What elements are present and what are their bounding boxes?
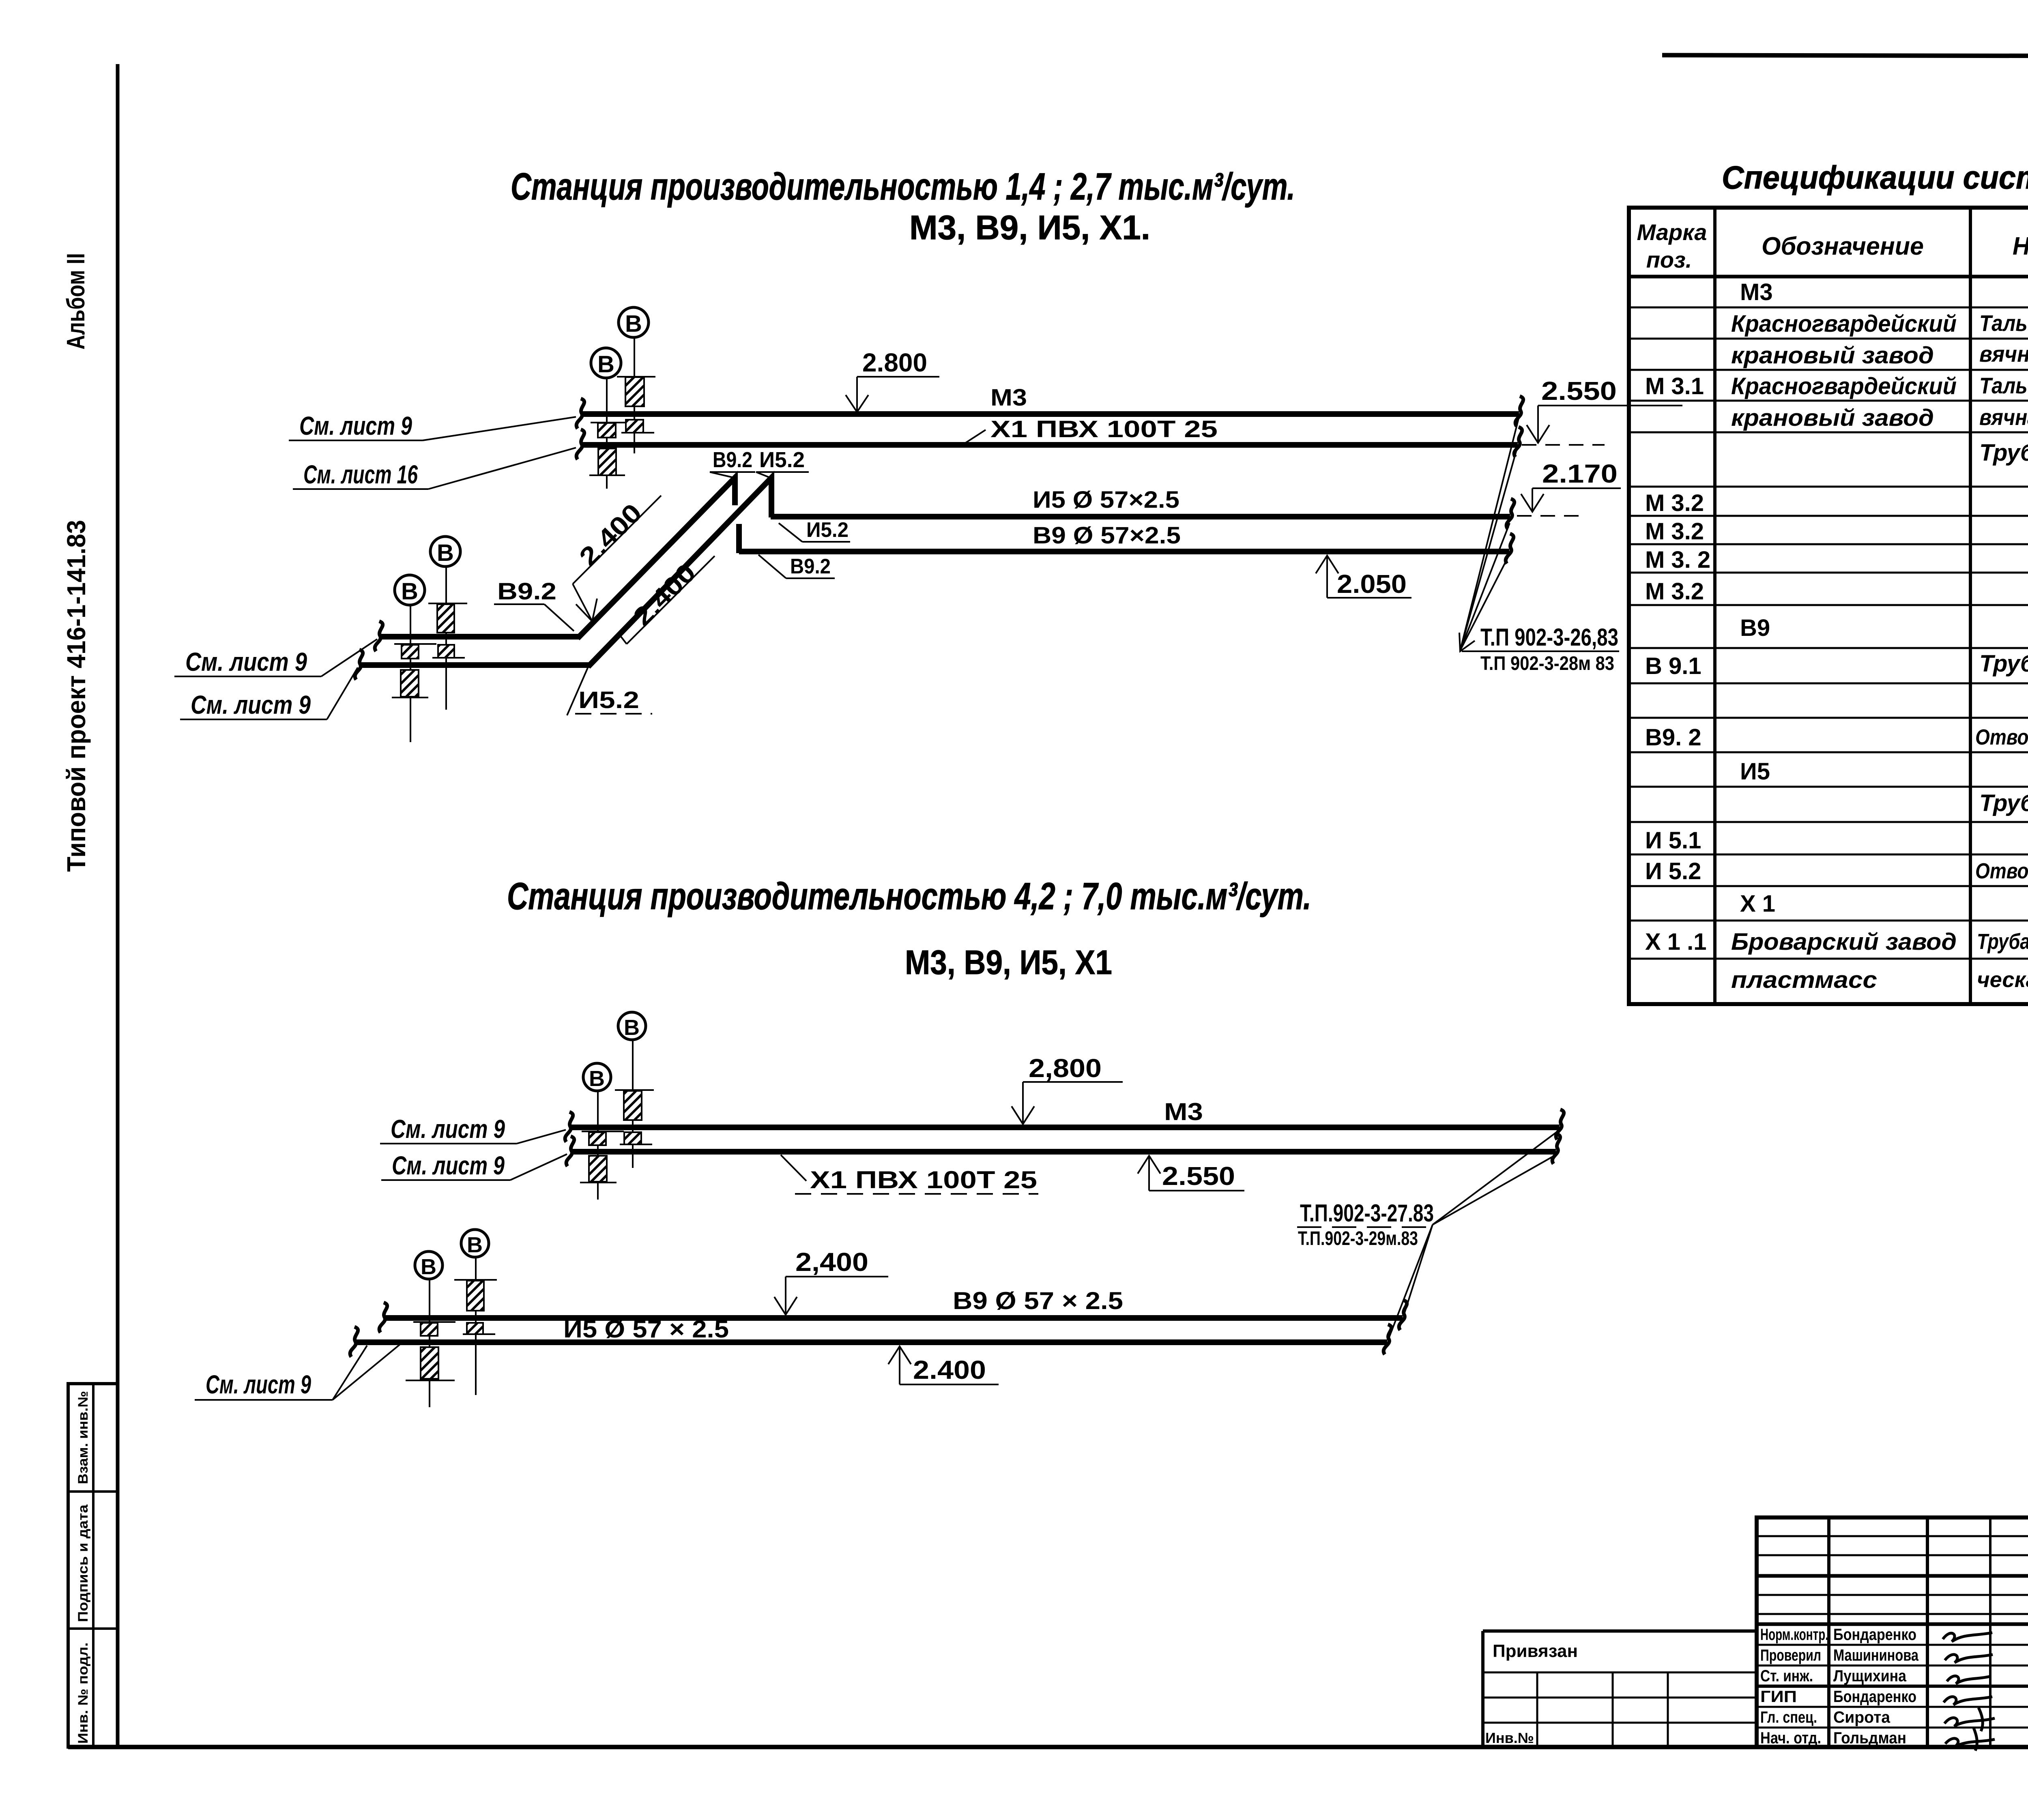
svg-text:Инв.№: Инв.№: [1485, 1730, 1534, 1746]
table row M3.2 219x4: [1645, 489, 2028, 516]
leader note Sm. list 9 (s2 upper 1): [380, 1114, 566, 1144]
svg-text:В: В: [421, 1255, 436, 1279]
svg-text:Станция производительностью: Станция производительностью 4,2 ; 7,0 ты…: [507, 875, 1311, 917]
table row V9 group: [1740, 615, 1770, 641]
table row M3.1: [1645, 373, 2028, 399]
dimension 2.400 rotated upper (schematic 1): [573, 496, 661, 621]
svg-text:Взам. инв.№: Взам. инв.№: [75, 1391, 91, 1484]
pipe label X1 PVH 100T 25 (schematic 1): [960, 416, 1218, 446]
svg-text:Т.П 902-3-26,83: Т.П 902-3-26,83: [1480, 624, 1618, 651]
svg-text:Проверил: Проверил: [1760, 1646, 1821, 1664]
wall sleeve hatches (s2 upper, right line): [615, 1090, 654, 1144]
heading 2 line 2: [905, 943, 1112, 981]
pipe label V9 d57x2.5 (schematic 2): [953, 1287, 1123, 1314]
leader note Sm. list 16 (schematic 1): [293, 448, 576, 489]
svg-text:М 3.1: М 3.1: [1645, 373, 1704, 399]
pipe break X1 left (s2): [566, 1136, 574, 1166]
svg-text:М 3.2: М 3.2: [1645, 518, 1704, 545]
svg-text:В: В: [467, 1233, 483, 1257]
svg-text:И5.2: И5.2: [578, 687, 639, 713]
svg-text:В9.2: В9.2: [790, 555, 831, 578]
svg-text:И5 Ø 57 × 2.5: И5 Ø 57 × 2.5: [563, 1316, 729, 1343]
table row M3.2 325x4: [1645, 546, 2028, 573]
svg-text:В9 Ø 57 × 2.5: В9 Ø 57 × 2.5: [953, 1287, 1123, 1314]
svg-text:Привязан: Привязан: [1493, 1641, 1578, 1661]
label V9.2 lower with leader: [758, 555, 835, 578]
svg-text:И5.2: И5.2: [759, 448, 805, 472]
pipe break M3 right (s2): [1556, 1110, 1564, 1140]
section mark circle B (schematic 2 upper, left): [583, 1063, 611, 1200]
svg-text:Х1 ПВХ 100Т 25: Х1 ПВХ 100Т 25: [810, 1166, 1037, 1193]
svg-text:Наименование: Наименование: [2013, 232, 2028, 260]
svg-text:В: В: [624, 1015, 640, 1040]
svg-text:Спецификации систем М3, В9,: Спецификации систем М3, В9, И5, Х1: [1722, 159, 2028, 195]
label Инв. № подл.: [75, 1642, 91, 1744]
table row I5 group: [1740, 758, 1770, 785]
svg-text:крановый завод: крановый завод: [1731, 405, 1934, 431]
reference note T.P 902-3-26,83 with leader fan (schematic 1): [1459, 419, 1619, 674]
section mark circle B (schematic 1 lower, left): [395, 575, 425, 742]
svg-text:Инв. № подл.: Инв. № подл.: [75, 1642, 91, 1744]
svg-text:М 3. 2: М 3. 2: [1645, 547, 1710, 573]
svg-text:В9.2: В9.2: [713, 448, 752, 472]
svg-text:ческая“ ТУ6-19-99-78: ческая“ ТУ6-19-99-78: [1977, 968, 2028, 992]
svg-text:поз.: поз.: [1646, 247, 1692, 273]
svg-text:И 5.1: И 5.1: [1645, 827, 1701, 854]
frame left border line: [116, 64, 120, 1748]
wall sleeve hatches (s2 lower, left line): [406, 1322, 455, 1380]
table header texts: [1637, 213, 2028, 276]
section mark circle B (schematic 2 lower, left): [415, 1251, 443, 1407]
wall sleeve hatches (s2 lower, right line): [454, 1280, 497, 1334]
table row kranovyy zavod 1: [1731, 341, 2028, 369]
svg-text:Труба ПВХ 100Т 25 „Техни-: Труба ПВХ 100Т 25 „Техни-: [1977, 929, 2028, 954]
svg-text:Т.П 902-3-28м 83: Т.П 902-3-28м 83: [1480, 653, 1614, 674]
pipe break V9 right: [1506, 534, 1513, 564]
vertical margin text: Альбом II: [62, 253, 90, 350]
svg-text:Машининова: Машининова: [1833, 1646, 1919, 1664]
wall sleeve hatches on right line (schematic 1 lower): [428, 603, 467, 658]
svg-text:В9.2: В9.2: [497, 578, 556, 605]
svg-text:2.170: 2.170: [1542, 459, 1618, 488]
svg-text:Красногвардейский: Красногвардейский: [1731, 373, 1957, 399]
pipe break M3 left: [576, 399, 584, 429]
svg-text:В 9.1: В 9.1: [1645, 653, 1701, 679]
table row M3 group: [1740, 279, 1773, 305]
pipe break X1 right (s2): [1552, 1134, 1560, 1164]
svg-text:2,800: 2,800: [1029, 1054, 1102, 1083]
pipe I5 lower-left run (schematic 1): [359, 662, 590, 668]
svg-text:См. лист 9: См. лист 9: [392, 1151, 505, 1180]
svg-text:2.800: 2.800: [862, 348, 927, 377]
dimension 2.800 (schematic 1): [846, 348, 939, 412]
svg-text:В9: В9: [1740, 615, 1770, 641]
frame bottom border line: [68, 1745, 2028, 1749]
label Взам. инв.№: [75, 1391, 91, 1484]
frame top-right border line: [1662, 55, 2028, 57]
svg-text:Отвод: Отвод: [1975, 725, 2028, 749]
section mark circle B (schematic 1 upper, left): [591, 348, 621, 489]
svg-text:2.400: 2.400: [574, 498, 647, 571]
section mark circle B (schematic 1 upper, right): [619, 307, 649, 453]
heading 1 line 1: [511, 165, 1295, 208]
title block grid: [1757, 1517, 2028, 1747]
svg-text:М3, В9, И5, Х1: М3, В9, И5, Х1: [905, 943, 1112, 981]
svg-text:В: В: [401, 578, 418, 605]
svg-text:крановый завод: крановый завод: [1731, 342, 1934, 369]
table row Truba fraction (I5): [1979, 784, 2028, 825]
svg-text:Нач. отд.: Нач. отд.: [1760, 1729, 1821, 1747]
pipe break I5 right (s2): [1384, 1324, 1391, 1354]
svg-text:Альбом II: Альбом II: [62, 253, 90, 350]
pipe V9 diagonal riser run: [578, 478, 735, 638]
pipe I5 upper run (schematic 1): [771, 514, 1510, 519]
svg-text:М 3.2: М 3.2: [1645, 490, 1704, 516]
svg-text:См. лист 9: См. лист 9: [299, 411, 412, 440]
dimension 2.400 rotated lower (schematic 1): [620, 556, 715, 644]
pipe label I5 d57x2.5 (schematic 1): [1033, 487, 1179, 513]
pipe label X1 PVH 100T 25 (schematic 2): [781, 1155, 1038, 1194]
dimension 2,800 (schematic 2): [1012, 1054, 1123, 1124]
svg-text:2.400: 2.400: [627, 558, 701, 631]
svg-text:См. лист 9: См. лист 9: [391, 1114, 505, 1144]
table row Truba GOST fraction (M3): [1979, 434, 2028, 475]
svg-text:Подпись и дата: Подпись и дата: [75, 1504, 91, 1622]
dimension 2.550 (schematic 1): [1522, 376, 1682, 445]
pipe V9 vertical drop to upper run: [736, 524, 742, 553]
svg-text:См. лист 9: См. лист 9: [185, 647, 307, 676]
table row X1.1 Brovarskiy zavod: [1645, 928, 2028, 955]
svg-text:Т.П.902-3-29м.83: Т.П.902-3-29м.83: [1298, 1228, 1418, 1249]
label Подпись и дата: [75, 1504, 91, 1622]
svg-text:И5: И5: [1740, 758, 1770, 785]
svg-text:И5.2: И5.2: [806, 518, 849, 542]
svg-text:Норм.контр.: Норм.контр.: [1760, 1626, 1828, 1644]
pipe I5 diagonal riser run: [588, 478, 771, 667]
svg-text:М3: М3: [1740, 279, 1773, 305]
svg-text:Гл. спец.: Гл. спец.: [1760, 1708, 1817, 1726]
pipe V9 lower-left run (schematic 1): [379, 634, 579, 640]
leader note Sm. list 9 (upper, schematic 1): [289, 411, 576, 440]
svg-text:Ст. инж.: Ст. инж.: [1760, 1667, 1813, 1685]
svg-text:В: В: [625, 311, 642, 337]
svg-text:Сирота: Сирота: [1833, 1708, 1891, 1726]
dimension 2.400 (schematic 2 lower): [888, 1346, 999, 1384]
leader note Sm. list 9 (s2 upper 2): [381, 1151, 567, 1180]
svg-text:См. лист 9: См. лист 9: [206, 1370, 311, 1399]
pipe V9 upper run (schematic 1): [739, 549, 1509, 554]
signatures squiggles: [1943, 1633, 1995, 1751]
svg-text:Бондаренко: Бондаренко: [1833, 1688, 1916, 1706]
pipe break I5 lower-left: [355, 650, 363, 680]
pipe M3 (schematic 1): [581, 411, 1519, 417]
svg-text:Труба: Труба: [1979, 440, 2028, 466]
svg-text:В: В: [437, 540, 454, 566]
table row I5.1 57x2,5: [1645, 827, 2028, 854]
leader note Sm. list 9 (lower 2, schematic 1): [180, 667, 358, 719]
svg-text:Марка: Марка: [1637, 219, 1707, 245]
svg-text:Труба: Труба: [1979, 650, 2028, 677]
table grid: [1629, 208, 2028, 1004]
pipe label I5 d57x2.5 (schematic 2): [563, 1316, 729, 1343]
svg-text:вячная 1 ГОСТ 1106-74: вячная 1 ГОСТ 1106-74: [1979, 341, 2028, 367]
svg-text:И 5.2: И 5.2: [1645, 858, 1701, 884]
section mark circle B (schematic 2 lower, right): [461, 1230, 489, 1395]
section mark circle B (schematic 2 upper, right): [618, 1012, 646, 1168]
pipe X1 (schematic 2): [571, 1149, 1556, 1155]
svg-text:М3: М3: [1164, 1098, 1203, 1125]
heading 2 line 1: [507, 875, 1311, 917]
pipe break V9 left (s2): [379, 1303, 387, 1333]
svg-text:См. лист 9: См. лист 9: [191, 690, 311, 719]
pipe break X1 left: [576, 429, 584, 459]
leader note Sm. list 9 (s2 bottom) with two leaders: [195, 1343, 402, 1400]
svg-text:Красногвардейский: Красногвардейский: [1731, 311, 1957, 337]
svg-text:Станция производительностью: Станция производительностью 1,4 ; 2,7 ты…: [511, 165, 1295, 208]
svg-text:Броварский завод: Броварский завод: [1731, 929, 1957, 955]
svg-text:Х 1 .1: Х 1 .1: [1645, 929, 1707, 955]
pipe I5 (schematic 2): [354, 1339, 1387, 1345]
svg-text:И5 Ø 57×2.5: И5 Ø 57×2.5: [1033, 487, 1179, 513]
svg-text:В: В: [597, 351, 614, 378]
label I5.2 top with leader: [756, 448, 809, 478]
privyazan label: [1493, 1641, 1578, 1661]
label I5.2 middle with leader: [779, 518, 850, 542]
svg-text:2,400: 2,400: [795, 1247, 868, 1277]
svg-text:Лущихина: Лущихина: [1833, 1667, 1907, 1685]
svg-text:М 3.2: М 3.2: [1645, 578, 1704, 605]
pipe label V9 d57x2.5 (schematic 1): [1033, 522, 1181, 549]
pipe break V9 right (s2): [1399, 1300, 1407, 1330]
table row kranovyy zavod 2: [1731, 404, 2028, 431]
table row M3.2 426x6: [1645, 578, 2028, 605]
svg-text:В9. 2: В9. 2: [1645, 724, 1701, 751]
pipe label M3 (schematic 2): [1164, 1098, 1203, 1125]
pipe break M3 left (s2): [565, 1112, 573, 1142]
table row X1 group: [1740, 891, 1775, 917]
table title: Спецификации систем М3, В9, И5, Х1: [1722, 159, 2028, 195]
heading 1 line 2: [909, 208, 1150, 247]
title block names column: [1833, 1626, 1919, 1747]
bottom-left stamp block: [68, 1384, 118, 1747]
svg-text:Таль передвижная чер-: Таль передвижная чер-: [1979, 373, 2028, 398]
svg-text:В9 Ø 57×2.5: В9 Ø 57×2.5: [1033, 522, 1181, 549]
pipe X1 (schematic 1): [581, 442, 1518, 448]
svg-text:ГИП: ГИП: [1760, 1688, 1797, 1706]
pipe break X1 right: [1514, 427, 1522, 457]
pipe break M3 right: [1515, 396, 1523, 426]
table row V9.1 with Truba fraction: [1645, 645, 2028, 685]
section mark circle B (schematic 1 lower, right): [430, 537, 460, 710]
svg-text:В: В: [589, 1067, 605, 1091]
svg-text:Гольдман: Гольдман: [1833, 1729, 1906, 1747]
table row Krasnogvardeyskiy 1: [1731, 310, 2028, 337]
svg-text:Х1 ПВХ 100Т 25: Х1 ПВХ 100Т 25: [990, 416, 1218, 442]
label I5.2 at bottom with leader: [567, 665, 652, 715]
svg-text:2.050: 2.050: [1337, 569, 1407, 599]
label V9.2 top with leader: [710, 448, 755, 478]
pipe M3 (schematic 2): [569, 1125, 1560, 1130]
pipe break V9 lower-left: [375, 621, 382, 651]
table row lines: [1629, 307, 2028, 959]
leader note Sm. list 9 (lower 1, schematic 1): [174, 639, 377, 676]
table row V9.2 otvod: [1645, 724, 2028, 751]
svg-text:Труба: Труба: [1979, 790, 2028, 816]
dimension 2.550 (schematic 2): [1138, 1156, 1244, 1191]
svg-text:Х 1: Х 1: [1740, 891, 1775, 917]
table row M3.2 273x4: [1645, 518, 2028, 545]
svg-text:Бондаренко: Бондаренко: [1833, 1626, 1916, 1644]
svg-text:Обозначение: Обозначение: [1762, 232, 1924, 260]
dimension 2,400 (schematic 2 upper): [774, 1247, 888, 1315]
vertical margin text: Типовой проект 416-1-141.83: [62, 520, 91, 872]
svg-text:Таль передвижная чер-: Таль передвижная чер-: [1979, 310, 2028, 336]
table row plastmass: [1731, 967, 2028, 993]
dimension 2.050 (schematic 1): [1316, 556, 1411, 599]
pipe break I5 left (s2): [350, 1327, 358, 1357]
svg-text:вячная 3.2 ГОСТ 1106-74: вячная 3.2 ГОСТ 1106-74: [1979, 404, 2028, 430]
svg-text:См. лист 16: См. лист 16: [303, 460, 418, 489]
pipe V9 (schematic 2): [384, 1315, 1403, 1321]
svg-text:Отвод: Отвод: [1975, 859, 2028, 883]
svg-text:2.400: 2.400: [913, 1355, 986, 1384]
dimension 2.170 (schematic 1): [1517, 459, 1621, 516]
svg-text:М3: М3: [990, 384, 1027, 411]
title block roles column: [1760, 1626, 1828, 1747]
pipe break I5 right: [1506, 499, 1514, 529]
svg-text:Типовой проект 416-1-141.83: Типовой проект 416-1-141.83: [62, 520, 91, 872]
wall sleeve hatches on left line (schematic 1 upper): [589, 423, 633, 475]
privyazan sub-block: [1483, 1631, 1757, 1747]
pipe label M3 (schematic 1): [990, 384, 1027, 411]
svg-text:пластмасс: пластмасс: [1731, 967, 1877, 993]
wall sleeve hatches on right line (schematic 1 upper): [617, 377, 655, 433]
svg-text:М3, В9, И5, Х1.: М3, В9, И5, Х1.: [909, 208, 1150, 247]
svg-text:2.550: 2.550: [1162, 1161, 1235, 1191]
table row I5.2 otvod: [1645, 858, 2028, 884]
reference note T.P.902-3-27.83 with leader fan (schematic 2): [1297, 1131, 1558, 1338]
inv no label: [1485, 1730, 1534, 1746]
svg-text:Т.П.902-3-27.83: Т.П.902-3-27.83: [1300, 1200, 1434, 1227]
wall sleeve hatches on left line (schematic 1 lower): [392, 644, 436, 698]
label V9.2 at lower elbow with leader: [494, 578, 574, 631]
wall sleeve hatches (s2 upper, left line): [580, 1131, 624, 1183]
svg-text:2.550: 2.550: [1541, 376, 1617, 406]
